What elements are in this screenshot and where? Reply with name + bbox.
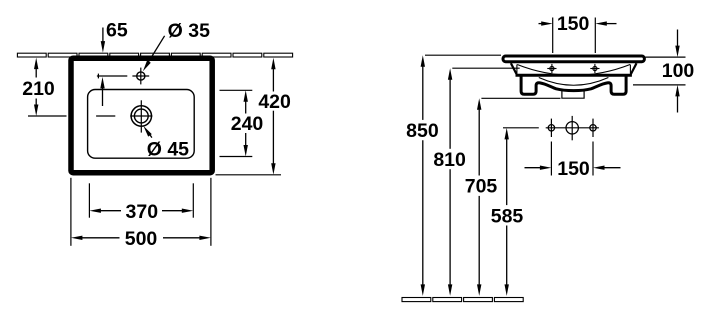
svg-text:Ø 35: Ø 35 [168,20,210,42]
dimension 150 (faucet holes) [539,13,617,53]
svg-text:810: 810 [433,149,466,171]
svg-text:850: 850 [406,120,439,142]
svg-text:705: 705 [465,176,498,198]
svg-text:370: 370 [126,201,159,223]
svg-text:240: 240 [231,113,264,135]
visible bowl bottom arc [539,78,609,86]
dimension 65 lower arrow (inside basin) [100,77,104,106]
svg-text:Ø 45: Ø 45 [147,139,189,161]
label Ø 35 with leader [143,20,210,71]
dimension 585 [503,127,539,129]
dimension 150 (mounting holes) [525,142,621,180]
inner bowl rim arc (front) [517,65,630,76]
center drain hole (front) [566,116,578,140]
svg-text:100: 100 [662,60,695,82]
drain fitting rectangle [562,91,584,99]
svg-text:150: 150 [557,158,590,180]
apron bottom edge [516,74,632,77]
svg-text:420: 420 [258,91,291,113]
dimension 240 [220,90,264,156]
dimension 210 [22,58,66,116]
svg-text:585: 585 [491,205,524,227]
basin apron sides [511,63,637,74]
faucet hole symbol right (front) [590,64,599,73]
svg-text:65: 65 [106,20,128,42]
faucet hole (plan, Ø35) [132,68,149,85]
drain centerline segment [96,115,115,117]
wall line (top, plan view) [17,53,292,57]
svg-text:500: 500 [125,228,158,250]
floor line [402,298,523,302]
basin underside profile with feet [521,75,626,94]
dimension 850 [425,54,501,56]
dimension 370 [89,183,193,223]
faucet hole symbol left (front) [547,64,556,73]
dimension 65 [101,20,128,53]
mounting hole right [590,119,596,137]
dimension 810 [452,67,519,69]
label Ø 45 with leader [143,126,189,161]
mounting hole left [548,119,554,137]
dimension 705 [481,97,560,99]
faucet hole centerline segment [97,74,127,79]
svg-text:150: 150 [557,13,590,35]
svg-text:210: 210 [22,78,55,100]
dimension 420 [216,58,292,175]
basin rim (front elevation) [503,56,644,62]
washbasin outer body (plan view, 500x420) [71,58,212,173]
wall mounting holes centerline [546,127,599,129]
dimension 500 [71,178,211,250]
dimension 100 [633,30,694,113]
inner basin bowl outline [88,90,195,159]
drain hole (plan, Ø45) [130,100,152,132]
